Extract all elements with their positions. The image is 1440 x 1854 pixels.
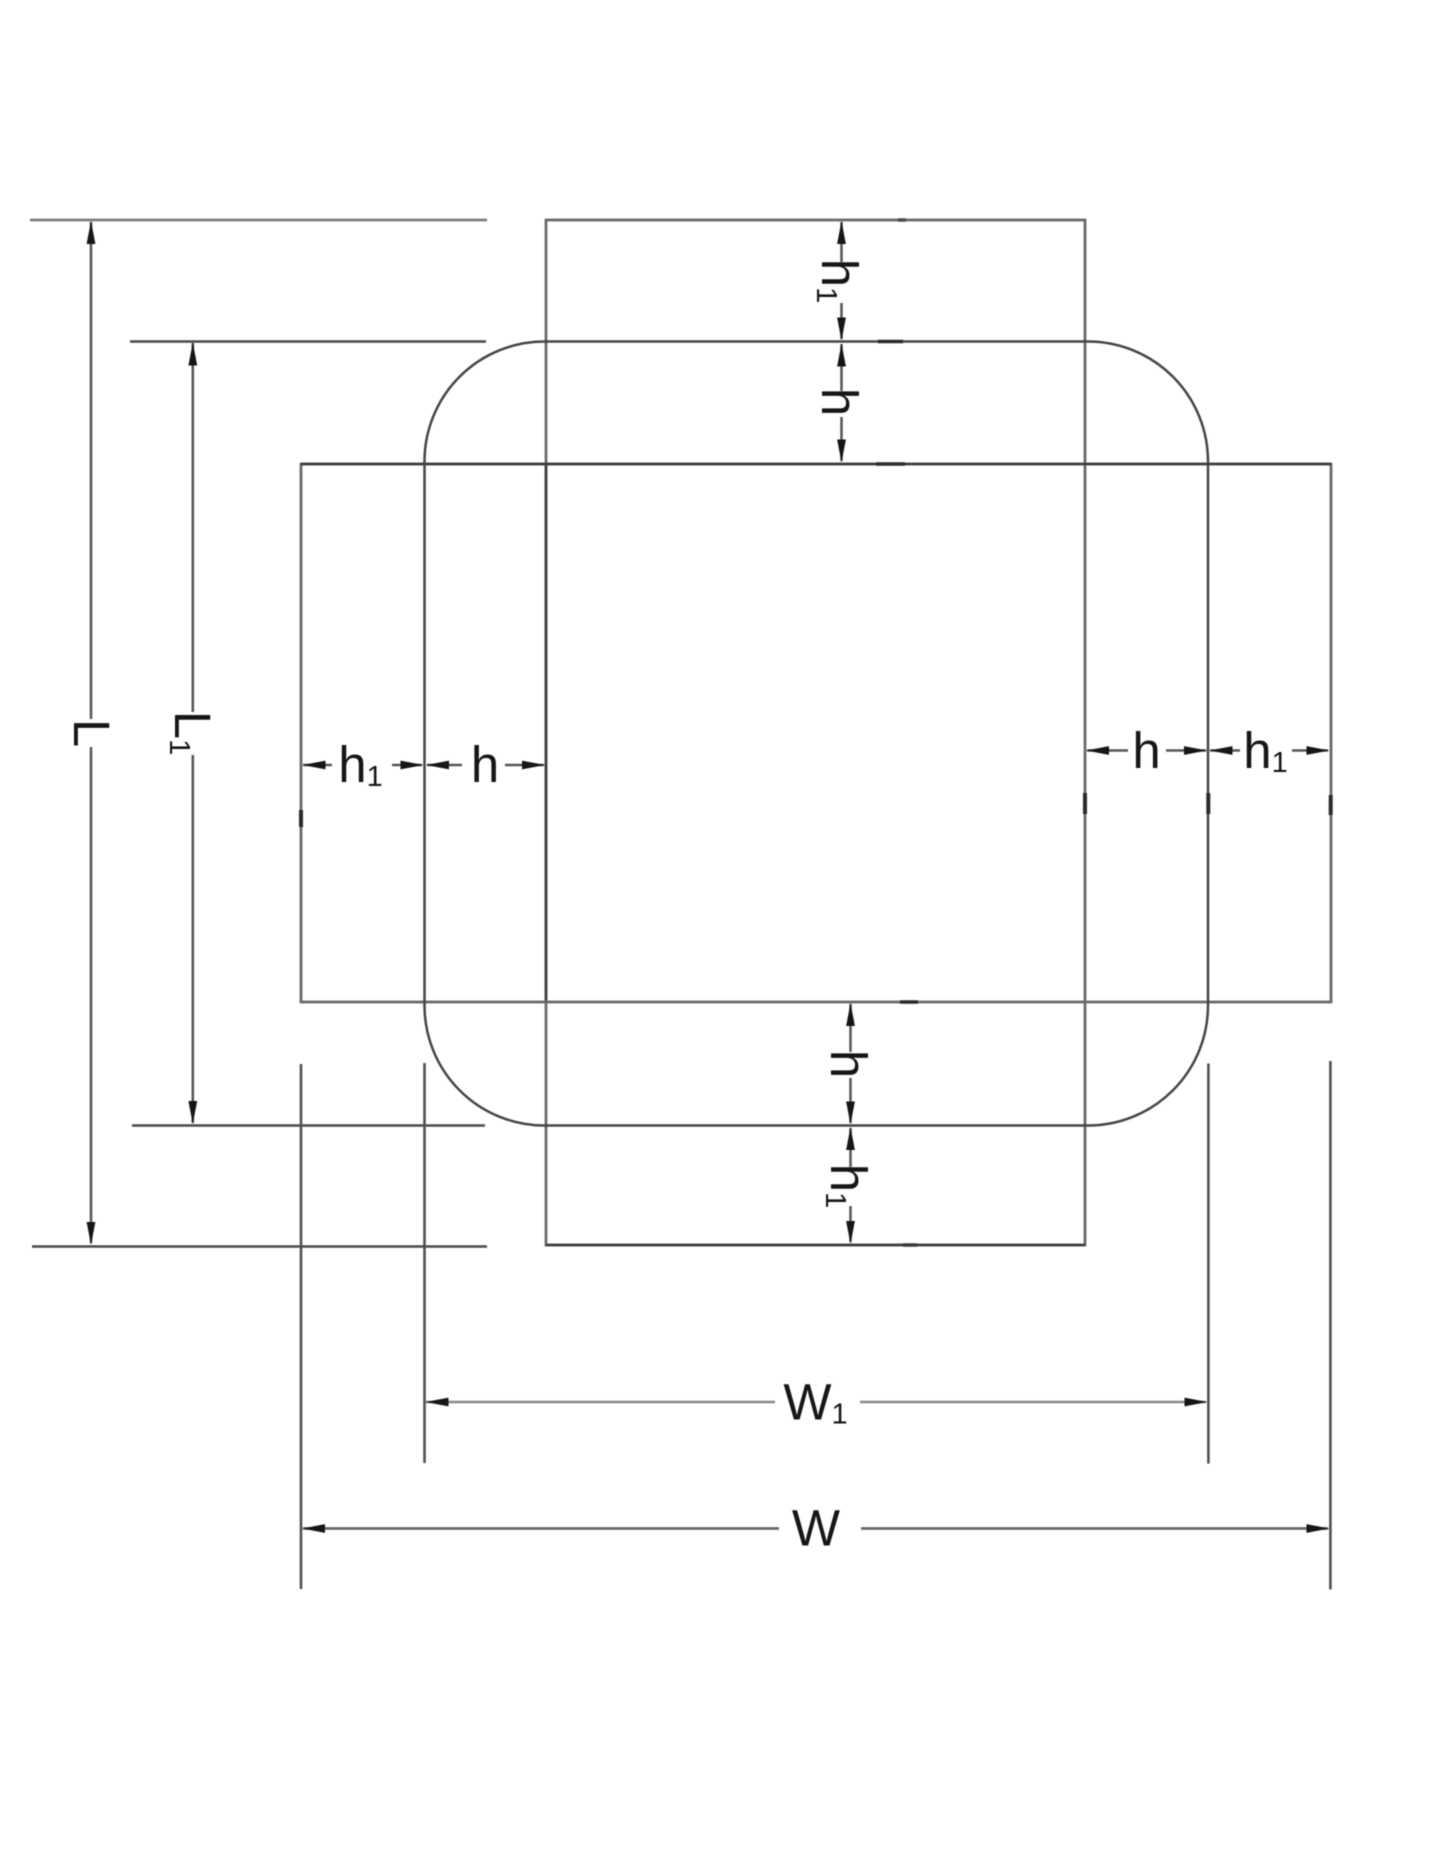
svg-text:W: W bbox=[792, 1500, 840, 1557]
tall rectangle left edge (darker) bbox=[545, 464, 548, 1002]
extension line top (L top, y=220) bbox=[30, 219, 487, 222]
right h arrowhead left bbox=[1086, 746, 1109, 755]
top h arrowhead down bbox=[837, 440, 846, 463]
tick mark on rounded rect right edge bbox=[1206, 793, 1210, 814]
left row dimension h (y=765, 424.5 to 546) bbox=[427, 764, 462, 767]
bottom dimension h1 line (x=850.5, 1125.5 to 1245) bbox=[849, 1128, 852, 1167]
dimension L1 arrowhead up bbox=[188, 343, 197, 366]
bottom h arrowhead up bbox=[846, 1003, 855, 1026]
W1 arrowhead left bbox=[426, 1398, 449, 1407]
bottom dimension h line (x=850.5, 1002 to 1125.5) bbox=[849, 1004, 852, 1052]
tick mark on tall rect right edge bbox=[1083, 793, 1087, 814]
tick mark on L1 top extension bbox=[878, 340, 903, 344]
W1 arrowhead right bbox=[1185, 1398, 1208, 1407]
left h arrowhead left bbox=[426, 761, 449, 770]
tick mark on wide rect left edge bbox=[299, 810, 303, 827]
tall rectangle bottom edge (darker) bbox=[546, 1244, 1085, 1247]
W1 extension line left (x=424.5) bbox=[423, 1063, 426, 1463]
right row dimension h (y=750.5, 1085 to 1208) bbox=[1087, 749, 1128, 752]
top h arrowhead up bbox=[837, 344, 846, 367]
svg-text:h: h bbox=[811, 388, 868, 416]
W arrowhead left bbox=[302, 1524, 325, 1533]
dimension W line (y=1528.5) bbox=[303, 1527, 779, 1530]
svg-text:h: h bbox=[471, 736, 499, 793]
extension line (L bottom, y=1246.5) bbox=[32, 1245, 487, 1248]
left h1 arrowhead left bbox=[303, 761, 326, 770]
bottom h arrowhead down bbox=[846, 1102, 855, 1125]
tall rectangle (vertical flap) bbox=[546, 220, 1085, 1245]
top dimension h1 line (x=841.5, 220 to 341.5) bbox=[840, 222, 843, 262]
tick mark on wide rect bottom edge bbox=[900, 1000, 918, 1004]
dimension L arrowhead down bbox=[87, 1222, 96, 1245]
left row dimension h1 (y=765, 301 to 424.5) bbox=[303, 764, 332, 767]
W1 extension line right (x=1208.4) bbox=[1207, 1064, 1210, 1464]
bottom h1 arrowhead up bbox=[846, 1127, 855, 1150]
wide rectangle (horizontal flap) bbox=[301, 464, 1331, 1002]
right row dimension h1 (y=750.5, 1208 to 1330.5) bbox=[1210, 749, 1240, 752]
W arrowhead right bbox=[1307, 1524, 1330, 1533]
W extension line right (x=1330.4) bbox=[1329, 1061, 1332, 1589]
dimension L arrowhead up bbox=[87, 221, 96, 244]
top dimension h line (x=841.5, 341.5 to 463.5) bbox=[840, 344, 843, 391]
bottom h1 arrowhead down bbox=[846, 1221, 855, 1244]
tick mark on tall rect top edge bbox=[898, 218, 906, 222]
rounded rectangle (tray outline) bbox=[425, 342, 1209, 1126]
right h1 arrowhead right bbox=[1307, 746, 1330, 755]
left h arrowhead right bbox=[522, 761, 545, 770]
extension line (L1 bottom, y=1125.5) bbox=[132, 1124, 485, 1127]
extension line (L1 top, y=341.5) bbox=[130, 340, 486, 343]
dimension W1 line (y=1402) bbox=[426, 1401, 775, 1404]
top h1 arrowhead up bbox=[837, 221, 846, 244]
dimension L line (x=91) bbox=[90, 222, 93, 719]
svg-text:h: h bbox=[820, 1050, 877, 1078]
left h1 arrowhead right bbox=[401, 761, 424, 770]
svg-text:h: h bbox=[1132, 722, 1160, 779]
W extension line left (x=301) bbox=[300, 1064, 303, 1589]
right h arrowhead right bbox=[1184, 746, 1207, 755]
tick mark on wide rect right edge bbox=[1329, 795, 1333, 815]
tick mark on tall rect bottom edge bbox=[903, 1243, 917, 1247]
tick mark on wide rect top edge bbox=[876, 462, 905, 466]
wide rectangle top edge (darker) bbox=[301, 463, 1331, 466]
dimension L1 line (x=192.8) bbox=[192, 343, 195, 712]
right h1 arrowhead left bbox=[1210, 746, 1233, 755]
svg-text:L: L bbox=[63, 719, 120, 747]
top h1 arrowhead down bbox=[837, 318, 846, 341]
dimension L1 arrowhead down bbox=[188, 1101, 197, 1124]
